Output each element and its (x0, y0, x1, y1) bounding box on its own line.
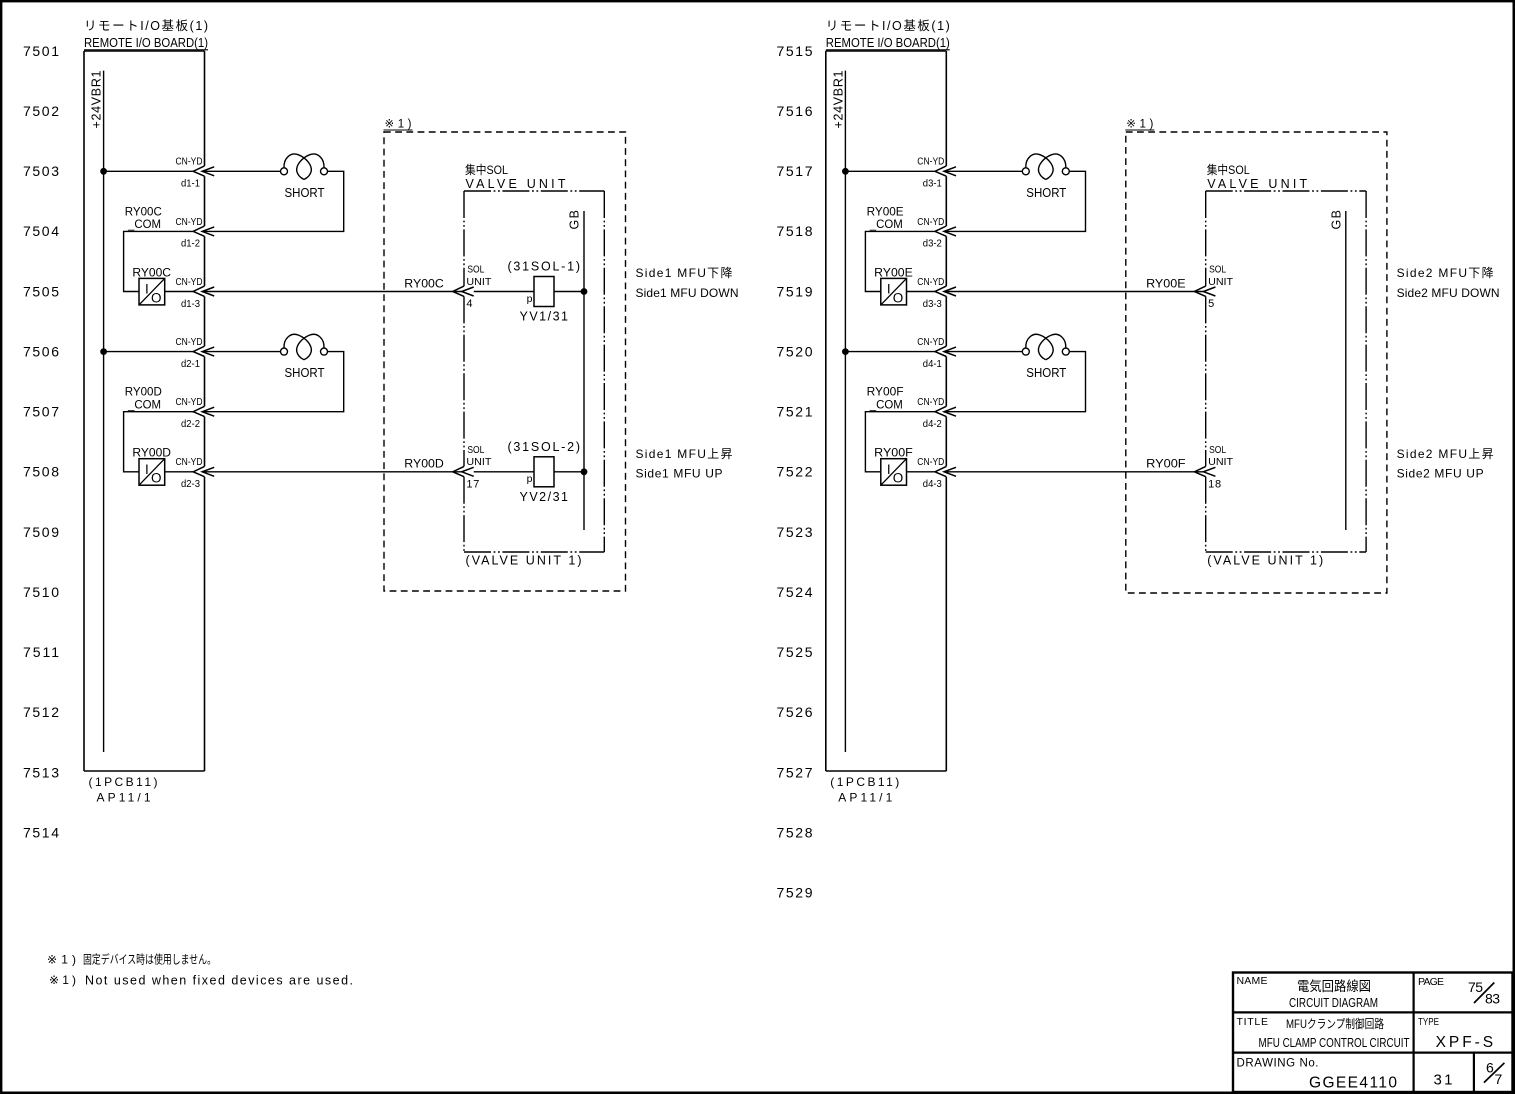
connector pin d1-1 (193, 166, 214, 176)
connector pin SOL UNIT 18 (1194, 466, 1215, 476)
svg-text:d3-2: d3-2 (923, 238, 942, 250)
wire pin d4-1 to SHORT (944, 351, 1023, 353)
svg-text:7516: 7516 (777, 103, 813, 119)
svg-text:7514: 7514 (23, 825, 59, 841)
svg-text:NAME: NAME (1237, 975, 1268, 987)
jumper plug SHORT (281, 334, 328, 380)
svg-text:7512: 7512 (23, 704, 59, 720)
svg-text:リモートI/O基板(1): リモートI/O基板(1) (826, 19, 950, 33)
svg-text:7504: 7504 (23, 223, 59, 239)
junction node solenoid 31SOL-2 to GB (581, 469, 587, 475)
svg-text:_COM: _COM (869, 398, 903, 412)
svg-text:d4-1: d4-1 (923, 358, 942, 370)
wire +24VBR1 bus (103, 71, 105, 752)
svg-text:CN-YD: CN-YD (176, 456, 203, 468)
svg-text:RY00E: RY00E (1146, 276, 1186, 290)
svg-text:VALVE UNIT: VALVE UNIT (1207, 177, 1307, 191)
svg-text:I: I (887, 462, 891, 477)
connector pin d1-2 (193, 226, 214, 236)
svg-text:O: O (893, 290, 904, 305)
junction node at d2-1 (101, 349, 107, 355)
svg-text:YV2/31: YV2/31 (520, 490, 569, 504)
svg-text:7508: 7508 (23, 464, 59, 480)
svg-text:CN-YD: CN-YD (176, 156, 203, 168)
connector pin d3-1 (935, 166, 956, 176)
svg-text:5: 5 (1208, 298, 1214, 310)
svg-text:d2-2: d2-2 (181, 418, 200, 430)
wire bus to pin d3-1 (845, 170, 935, 172)
wire relay RY00C to pin d1-3 (165, 291, 194, 293)
svg-text:Side1 MFU DOWN: Side1 MFU DOWN (636, 286, 739, 300)
wire GB bus (1345, 211, 1347, 530)
svg-text:I: I (887, 282, 891, 297)
svg-text:固定デバイス時は使用しません。: 固定デバイス時は使用しません。 (83, 952, 216, 967)
connector pin d1-3 (193, 286, 214, 296)
svg-text:75: 75 (1468, 979, 1483, 995)
connector pin SOL UNIT 4 (453, 286, 474, 296)
svg-text:リモートI/O基板(1): リモートI/O基板(1) (84, 19, 208, 33)
svg-text:d3-1: d3-1 (923, 178, 942, 190)
svg-text:d2-1: d2-1 (181, 358, 200, 370)
svg-text:p: p (527, 293, 533, 305)
remote I/O board box (84, 50, 205, 52)
jumper plug SHORT (1022, 154, 1069, 200)
svg-text:7515: 7515 (777, 43, 813, 59)
svg-text:(1PCB11): (1PCB11) (89, 775, 158, 789)
svg-text:CN-YD: CN-YD (917, 456, 944, 468)
svg-text:O: O (893, 471, 904, 486)
wire RY00E to valve unit (944, 291, 1203, 293)
connector pin d4-3 (935, 466, 956, 476)
connector pin SOL UNIT 17 (453, 466, 474, 476)
svg-text:4: 4 (466, 298, 472, 310)
svg-text:O: O (151, 471, 162, 486)
board right edge with connector gaps (204, 51, 206, 166)
wire relay RY00E to pin d3-3 (907, 291, 936, 293)
svg-text:TITLE: TITLE (1237, 1016, 1269, 1028)
svg-text:CN-YD: CN-YD (176, 336, 203, 348)
wire RY00D to valve unit (202, 471, 462, 473)
svg-text:Side2 MFU下降: Side2 MFU下降 (1397, 266, 1494, 280)
valve unit outer dashed box (1126, 132, 1387, 593)
svg-text:UNIT: UNIT (1208, 457, 1233, 468)
svg-text:7513: 7513 (23, 764, 59, 780)
svg-text:SHORT: SHORT (1026, 365, 1066, 380)
valve unit inner box (dash-dot-dot) (464, 190, 604, 192)
svg-text:7506: 7506 (23, 344, 59, 360)
svg-text:+24VBR1: +24VBR1 (90, 70, 104, 128)
svg-text:CN-YD: CN-YD (917, 156, 944, 168)
svg-text:CN-YD: CN-YD (917, 216, 944, 228)
svg-text:(VALVE UNIT 1): (VALVE UNIT 1) (1207, 553, 1323, 567)
svg-text:Side2 MFU上昇: Side2 MFU上昇 (1397, 447, 1494, 461)
svg-text:Side1 MFU上昇: Side1 MFU上昇 (636, 447, 733, 461)
svg-text:RY00D: RY00D (404, 457, 444, 471)
wire pin d3-1 to SHORT (944, 170, 1023, 172)
wire bus to pin d4-1 (845, 351, 935, 353)
svg-text:SOL: SOL (1209, 445, 1226, 456)
svg-text:7527: 7527 (777, 764, 813, 780)
svg-text:7526: 7526 (777, 704, 813, 720)
svg-text:17: 17 (466, 478, 479, 490)
svg-text:_COM: _COM (127, 217, 161, 231)
wire pin d1-1 to SHORT (202, 170, 281, 172)
svg-text:7521: 7521 (777, 404, 813, 420)
svg-text:7528: 7528 (777, 825, 813, 841)
svg-text:TYPE: TYPE (1418, 1016, 1439, 1028)
svg-text:d1-1: d1-1 (181, 178, 200, 190)
svg-text:VALVE UNIT: VALVE UNIT (466, 177, 566, 191)
svg-text:(31SOL-1): (31SOL-1) (508, 260, 581, 274)
svg-text:RY00D: RY00D (132, 446, 171, 460)
svg-text:7524: 7524 (777, 584, 813, 600)
svg-text:RY00C: RY00C (404, 276, 444, 290)
svg-text:CN-YD: CN-YD (176, 216, 203, 228)
svg-text:Side1 MFU UP: Side1 MFU UP (636, 467, 723, 481)
wire pin d2-1 to SHORT (202, 351, 281, 353)
svg-text:7505: 7505 (23, 283, 59, 299)
svg-text:7523: 7523 (777, 524, 813, 540)
svg-text:Side1 MFU下降: Side1 MFU下降 (636, 266, 733, 280)
svg-text:※1): ※1) (385, 119, 412, 131)
wire bus to pin d2-1 (104, 351, 194, 353)
svg-text:Side2 MFU UP: Side2 MFU UP (1397, 467, 1484, 481)
svg-text:YV1/31: YV1/31 (520, 310, 569, 324)
wire RY00C to valve unit (202, 291, 462, 293)
wire relay RY00F to pin d4-3 (907, 471, 936, 473)
svg-text:UNIT: UNIT (466, 277, 491, 288)
svg-text:+24VBR1: +24VBR1 (832, 70, 846, 128)
valve unit outer dashed box (384, 132, 626, 591)
svg-text:REMOTE I/O BOARD(1): REMOTE I/O BOARD(1) (826, 35, 950, 50)
connector pin d4-2 (935, 406, 956, 416)
board right edge with connector gaps (945, 51, 947, 166)
svg-text:CN-YD: CN-YD (917, 336, 944, 348)
wire SHORT return to pin d3-2 (944, 171, 1086, 231)
svg-text:SHORT: SHORT (285, 185, 325, 200)
svg-text:7518: 7518 (777, 223, 813, 239)
svg-text:_COM: _COM (127, 398, 161, 412)
svg-text:PAGE: PAGE (1418, 976, 1444, 988)
svg-text:XPF-S: XPF-S (1436, 1034, 1494, 1051)
svg-text:7510: 7510 (23, 584, 59, 600)
svg-text:RY00C: RY00C (132, 265, 171, 279)
wire RY00E_COM from pin d3-2 (865, 231, 935, 291)
svg-text:(VALVE UNIT 1): (VALVE UNIT 1) (466, 553, 582, 567)
svg-text:7503: 7503 (23, 163, 59, 179)
junction node at d4-1 (842, 349, 848, 355)
svg-text:MFU CLAMP CONTROL CIRCUIT: MFU CLAMP CONTROL CIRCUIT (1259, 1036, 1410, 1050)
title block table (1233, 973, 1513, 1093)
svg-text:18: 18 (1208, 478, 1221, 490)
svg-text:d4-3: d4-3 (923, 478, 942, 490)
svg-text:MFUクランプ制御回路: MFUクランプ制御回路 (1286, 1016, 1384, 1031)
svg-text:UNIT: UNIT (1208, 277, 1233, 288)
svg-text:7529: 7529 (777, 885, 813, 901)
svg-text:RY00E: RY00E (874, 265, 913, 279)
svg-text:※1): ※1) (49, 973, 76, 987)
svg-text:7507: 7507 (23, 404, 59, 420)
svg-text:d4-2: d4-2 (923, 418, 942, 430)
svg-text:※1): ※1) (47, 953, 76, 967)
connector pin d2-3 (193, 466, 214, 476)
svg-text:CN-YD: CN-YD (176, 276, 203, 288)
junction node at d3-1 (842, 168, 848, 174)
svg-text:Side2 MFU DOWN: Side2 MFU DOWN (1397, 286, 1500, 300)
svg-text:d1-3: d1-3 (181, 298, 200, 310)
svg-text:集中SOL: 集中SOL (465, 162, 508, 177)
svg-text:(31SOL-2): (31SOL-2) (508, 440, 581, 454)
junction node solenoid 31SOL-1 to GB (581, 288, 587, 294)
svg-text:I: I (145, 462, 149, 477)
connector pin d3-2 (935, 226, 956, 236)
svg-text:※1): ※1) (1126, 119, 1153, 131)
svg-text:p: p (527, 473, 533, 485)
svg-text:7: 7 (1495, 1071, 1503, 1087)
svg-text:CN-YD: CN-YD (917, 276, 944, 288)
svg-text:SHORT: SHORT (1026, 185, 1066, 200)
wire +24VBR1 bus (844, 71, 846, 752)
svg-text:7522: 7522 (777, 464, 813, 480)
svg-text:電気回路線図: 電気回路線図 (1297, 979, 1371, 994)
svg-text:d2-3: d2-3 (181, 478, 200, 490)
svg-text:I: I (145, 282, 149, 297)
svg-text:d3-3: d3-3 (923, 298, 942, 310)
svg-text:7502: 7502 (23, 103, 59, 119)
svg-text:Not used when fixed devices ar: Not used when fixed devices are used. (85, 974, 353, 988)
svg-text:CN-YD: CN-YD (917, 396, 944, 408)
connector pin d2-2 (193, 406, 214, 416)
svg-text:RY00F: RY00F (874, 446, 913, 460)
wire RY00F_COM from pin d4-2 (865, 412, 935, 472)
svg-text:O: O (151, 290, 162, 305)
svg-text:CIRCUIT DIAGRAM: CIRCUIT DIAGRAM (1289, 995, 1378, 1010)
svg-text:7525: 7525 (777, 644, 813, 660)
svg-text:d1-2: d1-2 (181, 238, 200, 250)
svg-text:SOL: SOL (1209, 265, 1226, 276)
svg-text:(1PCB11): (1PCB11) (830, 775, 899, 789)
wire RY00F to valve unit (944, 471, 1203, 473)
svg-text:REMOTE I/O BOARD(1): REMOTE I/O BOARD(1) (84, 35, 208, 50)
connector pin d3-3 (935, 286, 956, 296)
remote I/O board box (826, 50, 947, 52)
svg-text:7519: 7519 (777, 283, 813, 299)
wire bus to pin d1-1 (104, 170, 194, 172)
connector pin SOL UNIT 5 (1194, 286, 1215, 296)
jumper plug SHORT (281, 154, 328, 200)
connector pin d4-1 (935, 346, 956, 356)
wire GB bus (583, 211, 585, 530)
connector pin d2-1 (193, 346, 214, 356)
svg-text:7509: 7509 (23, 524, 59, 540)
wire SHORT return to pin d1-2 (202, 171, 344, 231)
wire relay RY00D to pin d2-3 (165, 471, 194, 473)
jumper plug SHORT (1022, 334, 1069, 380)
svg-text:GGEE4110: GGEE4110 (1309, 1074, 1397, 1091)
svg-text:7501: 7501 (23, 43, 59, 59)
svg-text:7520: 7520 (777, 344, 813, 360)
svg-text:集中SOL: 集中SOL (1207, 162, 1250, 177)
svg-text:DRAWING No.: DRAWING No. (1237, 1057, 1319, 1069)
svg-text:SHORT: SHORT (285, 365, 325, 380)
svg-text:RY00F: RY00F (1146, 457, 1186, 471)
svg-text:_COM: _COM (869, 217, 903, 231)
wire RY00C_COM from pin d1-2 (124, 231, 194, 291)
wire SHORT return to pin d4-2 (944, 352, 1086, 412)
svg-text:CN-YD: CN-YD (176, 396, 203, 408)
valve unit inner box (dash-dot-dot) (1206, 190, 1366, 192)
svg-text:83: 83 (1485, 991, 1500, 1007)
junction node at d1-1 (101, 168, 107, 174)
wire SHORT return to pin d2-2 (202, 352, 344, 412)
svg-text:SOL: SOL (467, 265, 484, 276)
svg-text:7517: 7517 (777, 163, 813, 179)
svg-text:SOL: SOL (467, 445, 484, 456)
svg-text:UNIT: UNIT (466, 457, 491, 468)
wire RY00D_COM from pin d2-2 (124, 412, 194, 472)
